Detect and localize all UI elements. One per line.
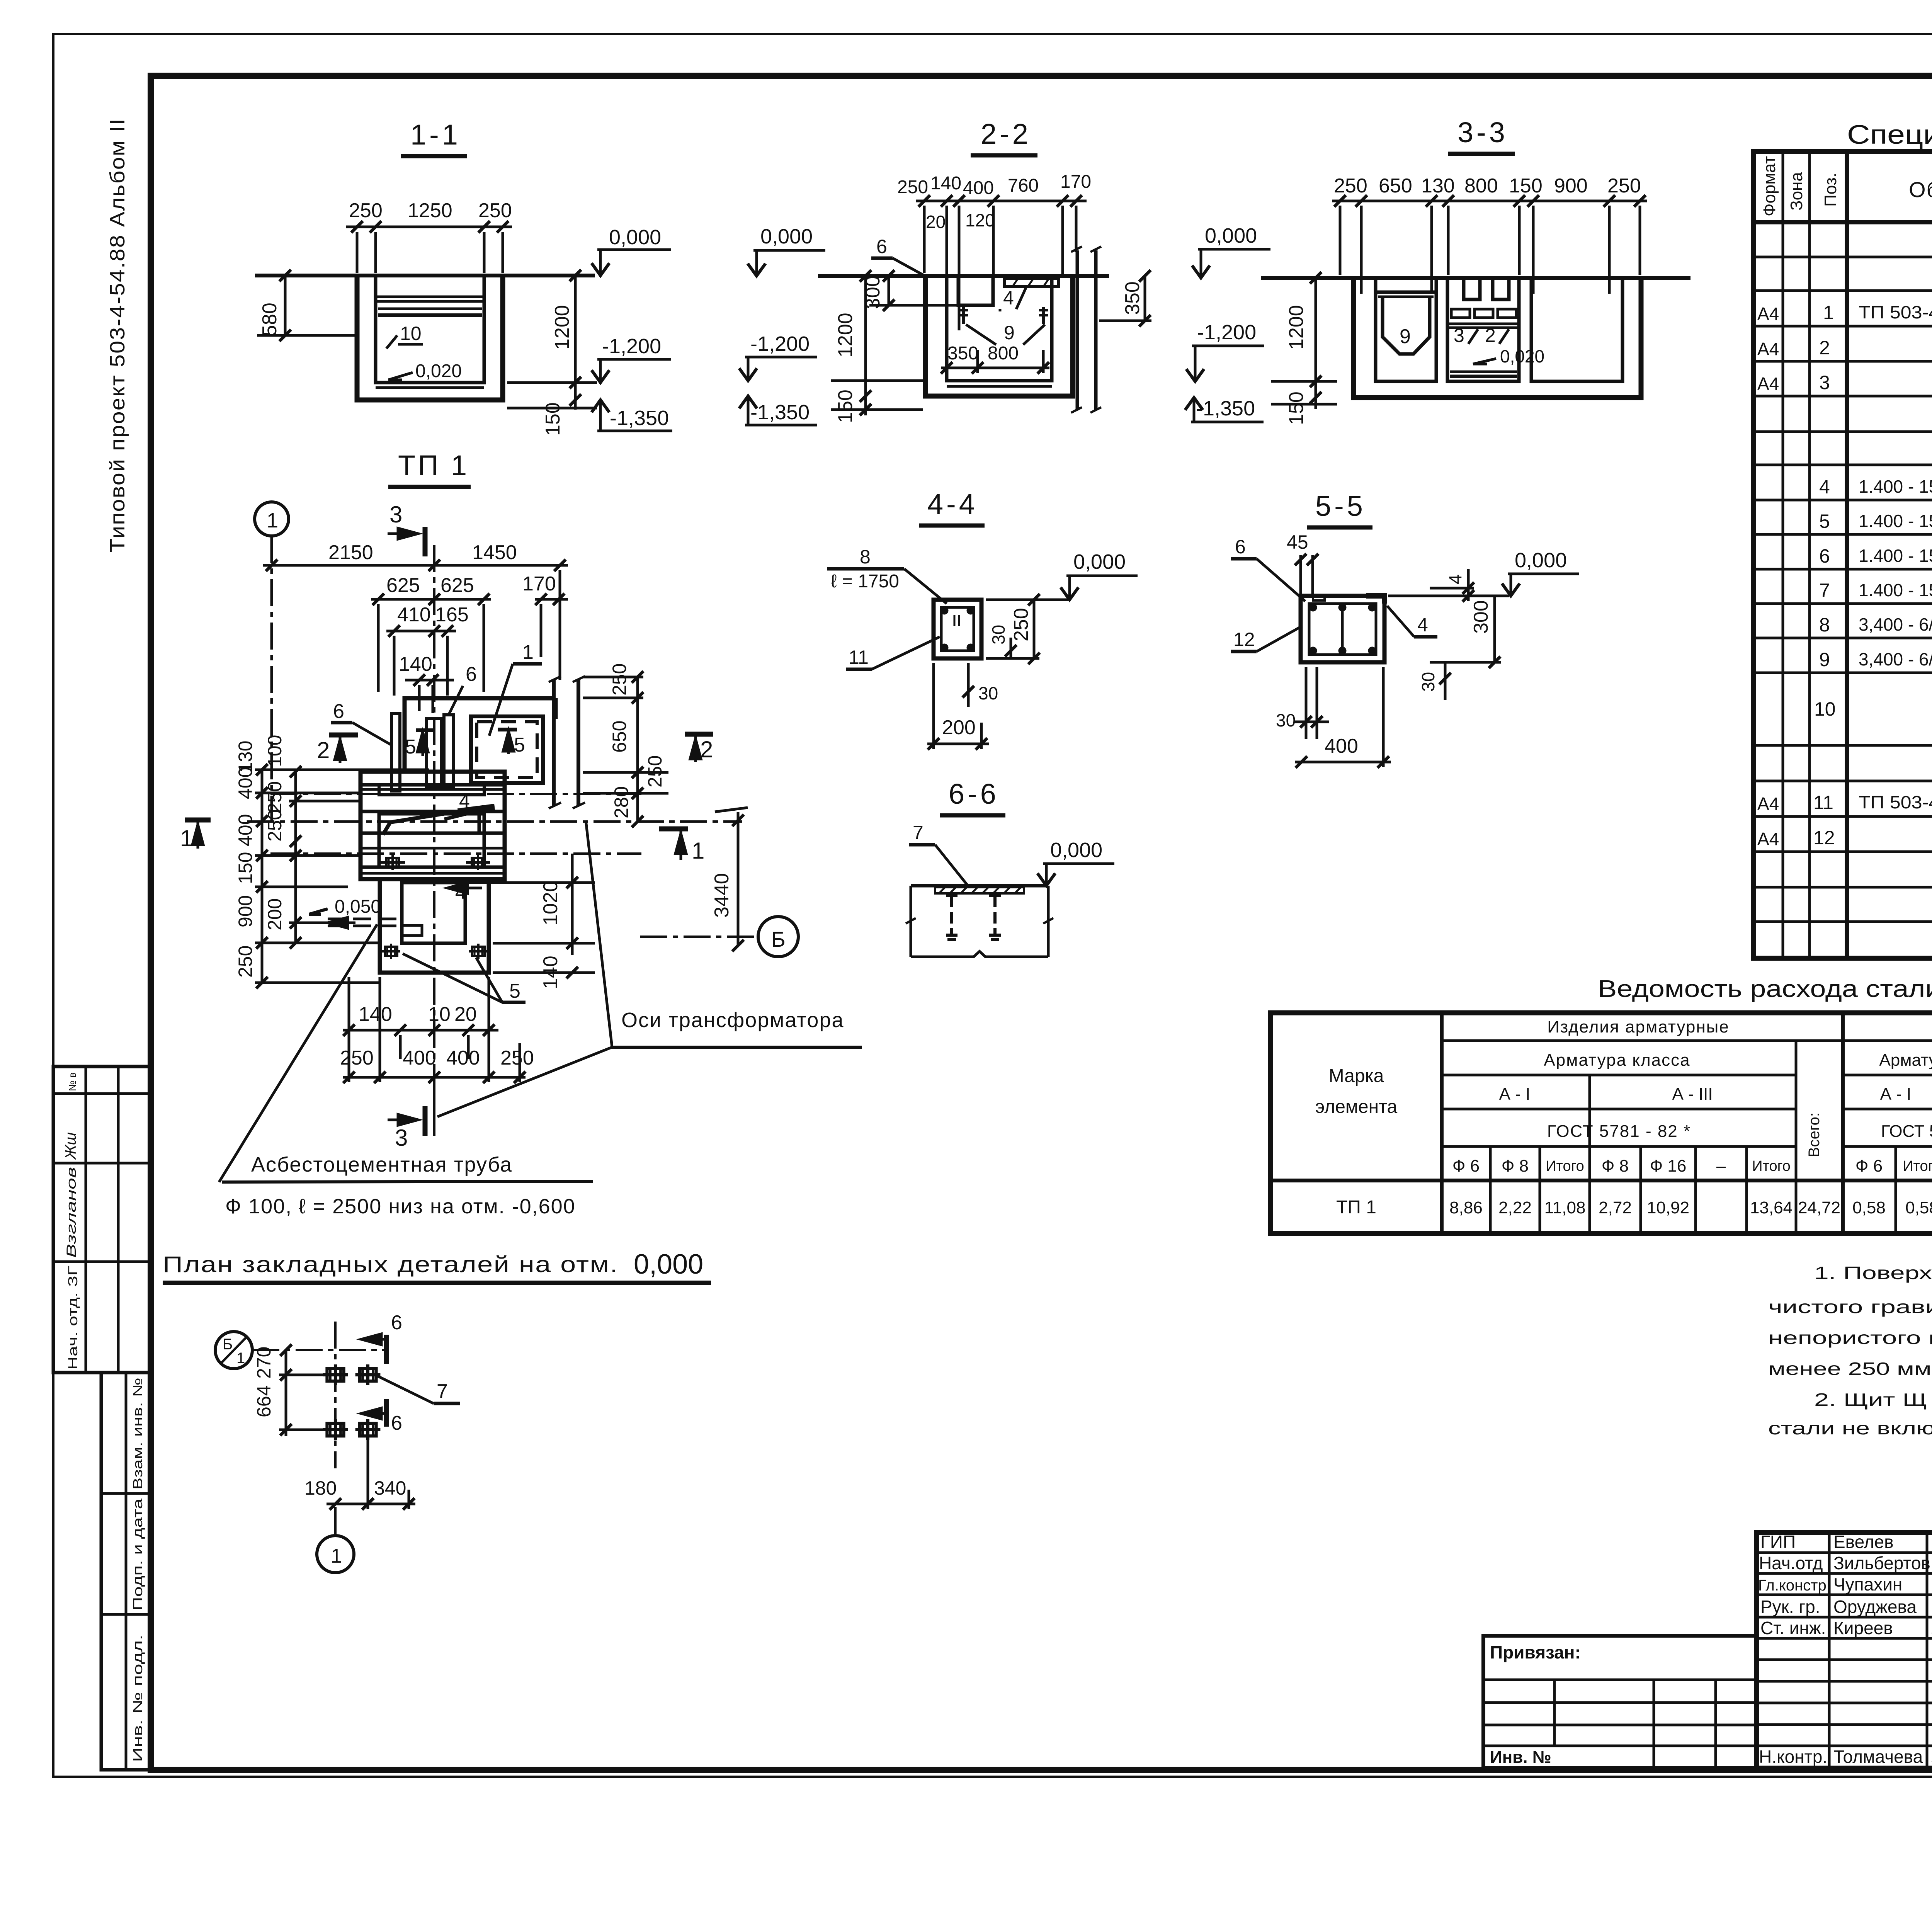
svg-text:План закладных деталей на отм.: План закладных деталей на отм. — [163, 1252, 619, 1277]
grate in compartment 2 — [1464, 278, 1480, 299]
svg-text:4: 4 — [1417, 614, 1428, 636]
level -1,200 — [1197, 321, 1256, 344]
notch — [402, 925, 422, 936]
level -1,200 — [750, 332, 810, 356]
svg-text:Всего:: Всего: — [1806, 1112, 1823, 1157]
svg-text:ГОСТ 5781 - 82 *: ГОСТ 5781 - 82 * — [1881, 1122, 1932, 1141]
dim 3440 — [711, 873, 733, 918]
middle plate — [427, 718, 441, 786]
svg-text:2: 2 — [317, 737, 330, 763]
dim 410 165 — [397, 604, 469, 626]
section 5-5 — [1231, 490, 1579, 768]
svg-text:5-5: 5-5 — [1315, 490, 1366, 522]
svg-text:30: 30 — [1276, 710, 1296, 730]
svg-text:30: 30 — [1418, 672, 1438, 692]
bolts in band — [383, 855, 402, 870]
embedded details plan — [163, 1249, 711, 1573]
svg-text:4: 4 — [459, 790, 470, 812]
svg-text:менее 250 мм и крупностью: менее 250 мм и крупностью 30 ÷ 50 мм . — [1768, 1359, 1932, 1379]
svg-text:№ в: № в — [66, 1072, 78, 1091]
svg-text:-1,200: -1,200 — [602, 335, 661, 358]
svg-text:410: 410 — [397, 604, 431, 626]
section 2-2 title — [981, 118, 1031, 150]
level 0,000 — [1515, 549, 1567, 572]
plate 6 right — [444, 715, 453, 788]
plan title TP1 — [398, 449, 469, 481]
dim 30 below — [1418, 672, 1438, 692]
plate 6 left — [391, 714, 400, 791]
svg-text:А - I: А - I — [1880, 1085, 1912, 1104]
dims 180 340 — [304, 1477, 406, 1499]
svg-text:3,400 - 6/76: 3,400 - 6/76 — [1859, 614, 1932, 634]
axis circle 1 bottom — [317, 1536, 354, 1573]
label 1 with leader — [522, 641, 534, 663]
svg-text:1020: 1020 — [539, 881, 562, 925]
section 5-5 title — [1315, 490, 1366, 522]
svg-text:1.400 - 15 вып. 1: 1.400 - 15 вып. 1 — [1859, 476, 1932, 497]
svg-text:стали не включены .: стали не включены . — [1768, 1418, 1932, 1438]
svg-text:Формат: Формат — [1760, 156, 1779, 216]
specification table title — [1847, 119, 1932, 150]
svg-text:чистого гравия или промытог: чистого гравия или промытого гранитного … — [1768, 1297, 1932, 1317]
dim 1200 — [1285, 305, 1308, 350]
level -1,200 — [602, 335, 661, 358]
svg-text:340: 340 — [374, 1477, 406, 1499]
svg-text:А4: А4 — [1757, 829, 1779, 849]
svg-text:5: 5 — [405, 736, 416, 758]
dim texts 250 1250 250 — [349, 199, 512, 222]
svg-text:0,000: 0,000 — [1205, 224, 1257, 247]
svg-text:Зона: Зона — [1787, 172, 1806, 211]
level 0,000 — [1205, 224, 1257, 247]
svg-text:6: 6 — [1235, 536, 1246, 558]
section 4-4 — [827, 488, 1138, 750]
extension lines left — [255, 769, 429, 771]
svg-text:Обозначение: Обозначение — [1909, 177, 1932, 202]
bolts lower — [382, 944, 400, 959]
svg-text:200: 200 — [942, 716, 976, 739]
svg-text:170: 170 — [1060, 172, 1091, 192]
title block outer — [1757, 1533, 1932, 1768]
svg-text:-1,350: -1,350 — [610, 407, 669, 430]
svg-text:400: 400 — [1325, 735, 1358, 757]
ground line — [818, 274, 1109, 278]
svg-text:20: 20 — [454, 1003, 477, 1026]
dim 250 — [1010, 608, 1032, 641]
axis circle B/1 — [215, 1332, 252, 1369]
svg-text:3440: 3440 — [711, 873, 733, 918]
svg-text:Евелев: Евелев — [1833, 1532, 1894, 1552]
svg-text:Нач. отд. ЗГ: Нач. отд. ЗГ — [66, 1266, 80, 1370]
svg-text:650: 650 — [1379, 175, 1412, 197]
bottom dims 140 1020 — [359, 1003, 477, 1026]
dim 300 — [1470, 600, 1492, 634]
I-beams — [946, 896, 957, 940]
svg-text:Ф 6: Ф 6 — [1855, 1157, 1883, 1175]
svg-text:6: 6 — [391, 1311, 402, 1334]
svg-text:20: 20 — [926, 212, 946, 232]
asbestos pipe label — [251, 1153, 512, 1176]
svg-text:10,92: 10,92 — [1647, 1198, 1689, 1217]
svg-text:Зильбертов: Зильбертов — [1833, 1553, 1930, 1573]
svg-text:Н.контр.: Н.контр. — [1759, 1747, 1827, 1767]
dim 1020 vertical — [539, 881, 562, 925]
center axis vertical — [433, 545, 435, 1113]
left margin vertical project text — [106, 118, 129, 553]
svg-text:Изделия арматурные: Изделия арматурные — [1547, 1017, 1730, 1036]
section 1-1 — [255, 119, 672, 436]
svg-text:Ф 8: Ф 8 — [1502, 1157, 1529, 1175]
section mark 3 top — [389, 502, 402, 527]
signature table verticals — [1828, 1533, 1831, 1768]
left dims outer column — [235, 741, 256, 978]
svg-text:Ф 16: Ф 16 — [1650, 1157, 1687, 1175]
specification rows text — [1757, 232, 1932, 954]
svg-text:250: 250 — [1010, 608, 1032, 641]
svg-text:250: 250 — [500, 1047, 534, 1069]
label 4 lower with arrow — [455, 881, 466, 903]
left margin stamp table lower — [101, 1373, 151, 1770]
svg-text:250: 250 — [609, 663, 630, 696]
label 11 — [849, 646, 869, 668]
svg-text:45: 45 — [1287, 531, 1308, 553]
svg-text:0,020: 0,020 — [1500, 346, 1544, 366]
svg-text:Киреев: Киреев — [1833, 1618, 1893, 1638]
svg-text:7: 7 — [913, 822, 923, 844]
column section rect — [934, 600, 981, 658]
svg-text:Взам. инв. №: Взам. инв. № — [131, 1378, 145, 1490]
osi transformatora label — [621, 1009, 844, 1032]
svg-text:140: 140 — [359, 1003, 392, 1026]
svg-text:3,400 - 6/76: 3,400 - 6/76 — [1859, 649, 1932, 669]
svg-text:4: 4 — [1003, 287, 1014, 309]
svg-text:Арматура класса: Арматура класса — [1879, 1051, 1932, 1070]
label 6 with leader — [876, 236, 887, 257]
svg-text:9: 9 — [1400, 325, 1411, 348]
svg-text:760: 760 — [1008, 175, 1039, 196]
level -1,350 — [750, 401, 810, 424]
svg-text:1.400 - 15 вып. 1: 1.400 - 15 вып. 1 — [1859, 511, 1932, 531]
svg-text:Нач.отд: Нач.отд — [1759, 1553, 1823, 1573]
stolik block — [958, 276, 993, 305]
central band outer — [361, 772, 505, 879]
svg-text:13,64: 13,64 — [1750, 1198, 1793, 1217]
dim 140 vertical — [539, 956, 562, 989]
axis B dash-dot and circle — [640, 936, 758, 938]
band pit opening — [379, 814, 484, 867]
section mark 1 right — [692, 838, 704, 864]
svg-text:2,72: 2,72 — [1599, 1198, 1632, 1217]
svg-text:580: 580 — [259, 303, 281, 336]
svg-text:900: 900 — [1554, 175, 1588, 197]
svg-text:элемента: элемента — [1315, 1097, 1398, 1117]
svg-text:А4: А4 — [1757, 339, 1779, 359]
svg-text:1.400 - 15 вып. 1: 1.400 - 15 вып. 1 — [1859, 546, 1932, 566]
svg-text:250: 250 — [1607, 175, 1641, 197]
svg-text:–: – — [1716, 1157, 1726, 1175]
svg-text:Б: Б — [771, 927, 786, 951]
section mark 3 bottom — [395, 1125, 408, 1151]
label 10 — [400, 323, 422, 344]
section 6-6 — [906, 778, 1114, 957]
lower part outline — [380, 879, 489, 973]
label 4 with leader — [1003, 287, 1014, 309]
svg-text:Итого: Итого — [1752, 1158, 1791, 1174]
dim 30 bottom + 200 — [978, 683, 998, 703]
svg-text:1250: 1250 — [408, 199, 452, 222]
svg-text:А4: А4 — [1757, 304, 1779, 324]
svg-text:280: 280 — [611, 786, 632, 818]
svg-text:1200: 1200 — [551, 305, 573, 350]
svg-text:12: 12 — [1233, 629, 1255, 650]
dim texts — [897, 172, 1091, 198]
dims 350 800 inside pit — [947, 343, 1019, 364]
svg-text:30: 30 — [978, 683, 998, 703]
svg-text:625: 625 — [386, 574, 420, 597]
plan TP1 — [180, 449, 862, 1218]
signature table rows — [1757, 1551, 1932, 1554]
svg-text:400: 400 — [235, 767, 256, 799]
anchor bolts — [962, 307, 965, 324]
svg-text:Асбестоцементная труба: Асбестоцементная труба — [251, 1153, 512, 1176]
svg-text:1: 1 — [331, 1545, 342, 1567]
compartment 3 — [1531, 278, 1622, 381]
svg-text:Жш: Жш — [62, 1132, 79, 1160]
dim 1200 — [834, 313, 857, 357]
svg-text:1: 1 — [522, 641, 534, 663]
svg-text:350: 350 — [947, 343, 978, 364]
svg-text:-1,200: -1,200 — [1197, 321, 1256, 344]
svg-text:11: 11 — [1813, 792, 1833, 813]
svg-text:ГОСТ 5781 - 82 *: ГОСТ 5781 - 82 * — [1547, 1122, 1691, 1141]
svg-text:5: 5 — [1819, 510, 1830, 532]
svg-text:12: 12 — [1813, 827, 1835, 849]
level 0,000 — [760, 225, 813, 248]
left dims inner column — [264, 735, 286, 930]
pit outer — [925, 276, 1073, 396]
svg-text:250: 250 — [897, 177, 928, 197]
svg-text:Инв. № подл.: Инв. № подл. — [131, 1635, 145, 1762]
section mark 2 right — [700, 737, 713, 762]
dim 140 top — [399, 653, 432, 675]
svg-text:1: 1 — [267, 509, 278, 532]
svg-text:100: 100 — [264, 735, 286, 767]
steel table header text — [1315, 1017, 1932, 1175]
svg-text:2-2: 2-2 — [981, 118, 1031, 150]
plate top right corner — [1366, 596, 1384, 604]
label 7 with leader — [437, 1380, 448, 1403]
svg-text:0,020: 0,020 — [415, 361, 462, 381]
svg-text:Оруджева: Оруджева — [1833, 1597, 1917, 1617]
dim 30 right — [988, 625, 1009, 645]
ground line — [1261, 276, 1690, 280]
svg-text:Взгланов: Взгланов — [64, 1167, 79, 1258]
svg-text:4: 4 — [1819, 476, 1830, 498]
svg-text:0,000: 0,000 — [760, 225, 813, 248]
dim 4 small — [1445, 574, 1465, 584]
svg-text:10: 10 — [428, 1003, 451, 1026]
svg-text:2150: 2150 — [328, 541, 373, 564]
svg-text:Чупахин: Чупахин — [1833, 1574, 1902, 1594]
svg-text:400: 400 — [403, 1047, 436, 1069]
svg-text:6: 6 — [391, 1412, 402, 1434]
pipe dashes — [328, 918, 401, 920]
dims 664 270 — [253, 1347, 275, 1417]
svg-text:140: 140 — [399, 653, 432, 675]
section 6 marks — [391, 1311, 402, 1334]
band inner top slab — [379, 785, 484, 795]
slab with hatch — [911, 884, 1048, 888]
svg-text:11,08: 11,08 — [1544, 1198, 1586, 1217]
labels 6 45 — [1235, 531, 1308, 558]
dim 150 — [834, 390, 857, 423]
svg-text:250: 250 — [264, 781, 286, 813]
svg-text:Б: Б — [223, 1336, 233, 1353]
svg-text:0,000: 0,000 — [609, 226, 661, 249]
dim 30 left bottom — [1276, 710, 1296, 730]
level -1,350 — [1196, 397, 1255, 420]
svg-text:8,86: 8,86 — [1449, 1198, 1483, 1217]
svg-text:400: 400 — [235, 814, 256, 846]
section 3-3 — [1185, 116, 1690, 425]
svg-text:0,000: 0,000 — [1515, 549, 1567, 572]
svg-text:200: 200 — [264, 898, 286, 930]
svg-text:Привязан:: Привязан: — [1490, 1642, 1581, 1662]
svg-text:150: 150 — [834, 390, 857, 423]
bottom break line — [911, 951, 1048, 957]
svg-text:Ст. инж.: Ст. инж. — [1760, 1618, 1826, 1638]
slope 0.050 — [335, 896, 381, 917]
svg-text:3-3: 3-3 — [1458, 116, 1508, 148]
svg-text:Ф 6: Ф 6 — [1452, 1157, 1480, 1175]
svg-text:-1,350: -1,350 — [750, 401, 810, 424]
svg-text:10: 10 — [400, 323, 422, 344]
svg-text:250: 250 — [264, 810, 286, 842]
svg-text:0,000: 0,000 — [1073, 550, 1126, 573]
svg-text:0,58: 0,58 — [1852, 1198, 1886, 1217]
level 0,000 — [609, 226, 661, 249]
label 8 l=1750 — [831, 546, 899, 592]
svg-text:ГИП: ГИП — [1760, 1532, 1796, 1552]
svg-text:120: 120 — [965, 210, 995, 230]
dim 150 — [542, 402, 564, 436]
axis dash-dot lines — [252, 1349, 386, 1351]
notes text — [1768, 1263, 1932, 1438]
right wall double — [552, 680, 556, 806]
svg-text:250: 250 — [1334, 175, 1367, 197]
svg-text:250: 250 — [478, 199, 512, 222]
svg-text:250: 250 — [340, 1047, 374, 1069]
ground line — [255, 274, 595, 277]
svg-text:9: 9 — [1819, 649, 1830, 670]
svg-text:250: 250 — [349, 199, 383, 222]
pit outer — [1354, 278, 1641, 398]
level 0,000 — [1050, 839, 1102, 862]
svg-text:Ф 100, ℓ = 2500 низ на отм.: Ф 100, ℓ = 2500 низ на отм. -0,600 — [225, 1195, 576, 1218]
dim 300 — [862, 276, 884, 309]
svg-text:4: 4 — [1445, 574, 1465, 584]
label 6 right with leader — [466, 663, 477, 685]
svg-text:150: 150 — [235, 852, 256, 884]
svg-text:1: 1 — [1823, 302, 1834, 323]
svg-text:Подп. и дата: Подп. и дата — [131, 1499, 145, 1611]
dim 1200 — [551, 305, 573, 350]
svg-text:ТП 1: ТП 1 — [1336, 1197, 1376, 1218]
svg-text:800: 800 — [988, 343, 1019, 364]
dim 350 — [1121, 281, 1144, 315]
svg-text:8: 8 — [1819, 614, 1830, 636]
svg-text:400: 400 — [446, 1047, 480, 1069]
specification table grid — [1753, 151, 1932, 958]
svg-text:1: 1 — [180, 825, 193, 851]
svg-text:ТП 503-4-54.88 КИ-07000-07: ТП 503-4-54.88 КИ-07000-07 — [1859, 302, 1932, 322]
right column — [1076, 250, 1079, 410]
band horizontal lines — [361, 783, 505, 787]
dim 2150 1450 — [328, 541, 517, 564]
svg-text:180: 180 — [304, 1477, 337, 1499]
svg-text:-1,350: -1,350 — [1196, 397, 1255, 420]
svg-text:2. Щит Щ 1 и решетки Р: 2. Щит Щ 1 и решетки Р 1 и Р 2 в ведомос… — [1814, 1390, 1932, 1410]
label 6 left with leader — [333, 700, 344, 723]
dim 625 625 170 — [386, 573, 556, 597]
svg-text:140: 140 — [930, 173, 961, 194]
svg-text:400: 400 — [963, 178, 994, 198]
transformer axes dash-dot — [270, 793, 641, 795]
svg-text:8: 8 — [860, 546, 871, 568]
svg-text:1-1: 1-1 — [410, 119, 461, 151]
level -1,350 — [610, 407, 669, 430]
dim 400 — [1325, 735, 1358, 757]
svg-text:170: 170 — [522, 573, 556, 595]
svg-text:2: 2 — [1485, 325, 1496, 346]
svg-text:7: 7 — [1819, 580, 1830, 601]
svg-text:0,58: 0,58 — [1905, 1198, 1932, 1217]
label 12 — [1233, 629, 1255, 650]
svg-text:6: 6 — [876, 236, 887, 257]
section 1-1 title — [410, 119, 461, 151]
svg-text:650: 650 — [609, 721, 630, 753]
svg-text:Итого: Итого — [1546, 1158, 1584, 1174]
small plate top left — [1313, 596, 1325, 600]
svg-text:270: 270 — [253, 1347, 275, 1379]
svg-text:Гл.констр: Гл.констр — [1758, 1577, 1827, 1594]
svg-text:Итого: Итого — [1903, 1158, 1932, 1174]
svg-text:2: 2 — [1819, 337, 1830, 359]
section 6-6 title — [949, 778, 999, 810]
bucket 9 — [1376, 291, 1435, 294]
svg-text:165: 165 — [435, 604, 469, 626]
svg-text:6: 6 — [466, 663, 477, 685]
svg-text:1450: 1450 — [472, 541, 517, 564]
section mark 1 left — [180, 825, 193, 851]
section 2-2 — [739, 118, 1151, 425]
svg-text:А - I: А - I — [1499, 1085, 1531, 1104]
svg-text:А4: А4 — [1757, 794, 1779, 814]
svg-text:250: 250 — [235, 946, 256, 978]
mark 5 inside — [498, 728, 517, 731]
section 4-4 title — [927, 488, 978, 520]
compartment 2 — [1447, 278, 1519, 381]
dim texts — [1334, 175, 1641, 197]
slope 0.020 — [415, 361, 462, 381]
svg-text:-1,200: -1,200 — [750, 332, 810, 356]
beam section rect — [1301, 596, 1384, 662]
svg-text:Ф 8: Ф 8 — [1602, 1157, 1629, 1175]
svg-text:1200: 1200 — [834, 313, 857, 357]
channel top right — [1005, 278, 1059, 287]
svg-text:1: 1 — [236, 1350, 245, 1367]
svg-text:0,050: 0,050 — [335, 896, 381, 917]
